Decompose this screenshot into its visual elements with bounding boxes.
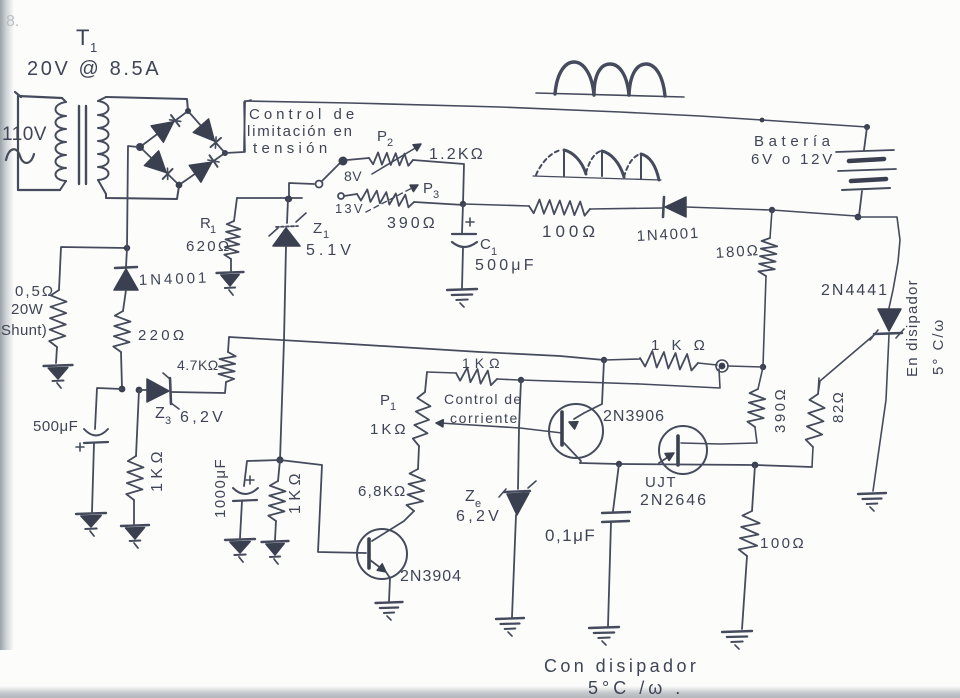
transformer primary winding [56,98,67,190]
svg-text:13V: 13V [335,201,365,216]
AC sine symbol [6,149,34,163]
ground SCR [858,493,886,511]
label 8V [344,168,362,184]
node battery minus [769,207,775,213]
capacitor 500uF [76,429,108,451]
svg-text:5.1V: 5.1V [306,242,355,259]
svg-text:1: 1 [323,229,330,241]
wire diode to battery node [686,207,770,210]
label Z3 [155,405,172,427]
label 1000uF [212,458,229,518]
svg-text:110V: 110V [2,124,47,145]
svg-text:82Ω: 82Ω [830,391,847,423]
svg-text:1: 1 [90,40,98,55]
label en disipador [904,279,921,377]
svg-text:390Ω: 390Ω [772,387,789,433]
waveform ripple [533,150,661,180]
bridge diode D3 [144,151,172,180]
resistor 39 ohm [747,367,765,427]
svg-text:8V: 8V [344,168,362,184]
label 500uF left [33,418,78,435]
wire 1K2 ground [275,521,276,540]
label 620 [186,238,231,255]
svg-text:500μF: 500μF [33,418,78,435]
label 1.2K [429,146,485,163]
wire 6.8K to P1 [418,446,419,469]
ground 1K left [121,525,149,548]
P2 wiper arrow [372,144,421,174]
svg-text:1: 1 [390,401,397,413]
label Z1 [313,220,330,241]
svg-text:2N4441: 2N4441 [821,282,889,299]
svg-text:6,8KΩ: 6,8KΩ [358,483,407,500]
wire secondary top to bridge [106,97,188,111]
potentiometer P3 [357,189,414,207]
transformer T1 label [76,25,98,55]
svg-text:100Ω: 100Ω [542,222,599,241]
label UJT [645,474,677,491]
svg-text:4.7KΩ: 4.7KΩ [177,357,219,373]
label Ze [465,488,482,510]
wire Ze to ground [512,515,516,617]
ground shunt [44,365,73,388]
wire 100b to ground [742,556,747,629]
svg-text:8.: 8. [6,13,19,30]
Q1 collector [372,511,414,541]
svg-text:UJT: UJT [645,474,677,491]
svg-text:1.2KΩ: 1.2KΩ [429,146,485,163]
label C1 [480,236,498,258]
wire 13V to P3 [344,194,357,196]
svg-text:2N3906: 2N3906 [603,408,665,425]
switch arm [322,157,348,182]
capacitor 0.1uF [602,512,630,522]
bridge diode D1 [151,115,181,142]
label 1K left [149,447,166,492]
ground 500uF [76,513,106,536]
transformer core [79,106,86,184]
label shunt [1,322,47,339]
wire to battery bottom [772,210,856,216]
wire P3 to C1 node [414,202,464,205]
wire 1K to ground [133,500,135,524]
wire C1 lead [462,204,463,233]
label 20W [11,301,44,318]
wire bias rail [229,337,604,360]
Q2 collector [564,443,581,463]
svg-text:390Ω: 390Ω [387,215,438,232]
wire secondary bottom to bridge [106,186,179,199]
svg-text:Shunt): Shunt) [1,322,47,339]
wire 8V to P2 [347,158,369,160]
svg-text:P: P [380,392,390,409]
node Ze top [518,377,524,383]
svg-text:1KΩ: 1KΩ [462,355,505,371]
node 01uF [616,461,622,467]
resistor 1K horizontal left [456,368,497,386]
svg-text:220Ω: 220Ω [138,327,187,344]
svg-text:Batería: Batería [754,133,835,150]
resistor 1K second [268,481,285,521]
svg-text:0,1μF: 0,1μF [545,526,596,545]
svg-text:1: 1 [210,224,217,236]
wire P1 to 1Kh [427,372,456,373]
label P2 [377,128,394,149]
svg-text:Control de: Control de [249,106,358,123]
svg-text:Z: Z [155,405,165,422]
svg-text:limitación en: limitación en [247,123,354,140]
svg-text:100Ω: 100Ω [760,535,806,552]
wire 180ohm to node B2rail [763,276,766,366]
svg-text:Control de: Control de [444,391,523,407]
wire bridge output riser [225,101,245,153]
wire 1Kh to node [497,379,519,380]
ground 100 ohm [722,631,752,649]
wire 220 to node [121,352,122,388]
label R1 [200,215,217,236]
resistor 100 ohm bottom [739,511,760,556]
node Z3 anode [136,387,143,394]
wire node A to 1000uF [244,460,280,486]
ground 0.1uF [589,627,619,645]
Q2 emitter [569,357,607,429]
wire P2 to C1 node [413,160,464,204]
zener Z1 [269,213,306,246]
label 13V [335,201,365,216]
wire lower rail [580,463,812,467]
note con disipador [544,656,699,698]
label P1 [380,392,397,413]
resistor 220 ohm [113,311,130,352]
wire node A to Q base [280,460,366,553]
wire shunt to ground [56,347,57,363]
label 2N3906 [603,408,665,425]
ground 1K second [262,541,289,564]
label 6.8K [358,483,407,500]
svg-text:Z: Z [465,488,475,505]
ground C1 [447,289,477,307]
wire bias to B2 node [521,369,720,388]
transformer secondary winding [98,97,109,194]
svg-text:En disipador: En disipador [904,279,921,377]
resistor 1K left [126,456,143,500]
svg-text:1N4001: 1N4001 [139,270,210,289]
svg-text:500μF: 500μF [475,257,537,274]
label 220 ohm [138,327,187,344]
waveform full-wave rectified [536,62,684,97]
wire node to R1 [234,198,302,221]
control box border [244,100,251,152]
label 1Kh right [651,337,709,354]
label 1Kh left [462,355,505,371]
wire diode to 220 [123,290,126,311]
svg-text:tensión: tensión [253,140,331,157]
wire 100b lead [752,465,755,511]
resistor R1 620 [224,221,240,259]
svg-text:1KΩ: 1KΩ [370,421,409,438]
label 2N4441 [821,282,889,299]
ground 2N3904 [376,602,403,620]
label 5.1V [306,242,355,259]
diode 1N4001 left [114,267,138,290]
svg-text:1 K Ω: 1 K Ω [651,337,709,354]
wire 100ohm to diode [590,208,662,209]
wire switch pole [286,183,314,202]
wire Ze lead [518,380,521,489]
label 20V @ 8.5A [27,58,161,80]
svg-text:1000μF: 1000μF [212,458,229,518]
svg-text:1KΩ: 1KΩ [287,469,304,514]
svg-text:Z: Z [313,220,322,237]
svg-text:5° C/ω: 5° C/ω [930,318,947,375]
wire node to 1K [136,390,139,456]
label 6.2V Z3 [180,409,226,426]
AC source 110V label [2,124,47,145]
capacitor C1 plus [466,218,474,226]
wire 4.7K top corner [228,337,229,352]
svg-text:P: P [423,180,433,197]
svg-text:T: T [76,25,90,50]
svg-text:20V @ 8.5A: 20V @ 8.5A [27,58,161,80]
label control de corriente [444,391,523,426]
capacitor 1000uF plus [246,476,254,484]
label P3 [423,180,440,201]
capacitor C1 [452,234,477,247]
resistor 100 ohm [529,200,590,216]
wire 01uF to ground [608,522,611,626]
svg-text:0,5Ω: 0,5Ω [15,283,55,300]
label Ze 6.2V [456,508,502,525]
diode 1N4001 right [663,197,686,217]
wire tap vertical [126,146,138,267]
svg-text:2N3904: 2N3904 [400,568,462,585]
node 100ohm bottom [752,462,759,469]
label 1N4001 left [139,270,210,289]
transistor Q2 2N3906 body [549,404,603,458]
resistor 82 ohm [806,378,825,467]
bridge diode D2 [193,119,221,148]
svg-text:Con disipador: Con disipador [544,656,699,676]
node left tap [124,245,130,251]
zener Ze [499,481,536,515]
node A [276,456,283,463]
svg-text:1N4001: 1N4001 [636,225,700,245]
resistor 4.7K [219,352,236,382]
UJT body [659,426,707,474]
switch pole contact [316,181,323,188]
label 100 ohm bottom [760,535,806,552]
node battery bottom [855,214,862,221]
svg-text:620Ω: 620Ω [186,238,231,255]
wire 01uF lead [613,464,619,511]
capacitor 1000uF [233,488,258,501]
node 1Kh right [698,360,728,372]
label 0.5 ohm [15,283,55,300]
node 39 top [728,364,766,370]
label 180 ohm [715,242,760,262]
svg-text:180Ω: 180Ω [715,242,760,262]
ground 1000uF [225,539,255,562]
label 1K second [287,469,304,514]
label bateria [751,133,835,168]
battery cells [836,127,896,216]
wire Z1 down to node A [280,246,286,460]
label 0.1uF [545,526,596,545]
wire R1 to ground [230,259,232,271]
svg-text:5°C /ω .: 5°C /ω . [588,678,684,698]
svg-text:1KΩ: 1KΩ [149,447,166,492]
label 2N2646 [640,492,708,509]
svg-text:3: 3 [433,189,440,201]
wire top rail to battery [245,101,867,127]
wire battery to SCR [858,217,900,308]
SCR 2N4441 [870,309,904,340]
wire C1 node to 100ohm [464,204,529,206]
label control de limitacion en tension [247,106,358,157]
node C1 top [460,201,466,207]
potentiometer P2 [369,152,413,165]
label P1 1K [370,421,409,438]
resistor 1K horizontal right [604,351,698,371]
label 5C per W [930,318,947,375]
svg-text:6V o 12V: 6V o 12V [751,151,835,168]
wire shunt top [59,247,127,290]
svg-text:2: 2 [387,137,394,149]
wire node to 180ohm [770,210,772,238]
SCR gate wire [818,335,874,394]
potentiometer P1 [413,392,431,446]
ground R1 [217,272,244,295]
resistor shunt 0.5 ohm [49,290,66,347]
svg-text:3: 3 [165,415,172,427]
node 220 bottom [119,386,126,393]
wire primary leads [15,92,62,190]
label 39 ohm [772,387,789,433]
Q1 emitter [370,560,390,601]
resistor 6.8K [407,469,426,511]
Q2 base wire [436,420,562,433]
label 2N3904 [400,568,462,585]
svg-text:P: P [377,128,387,145]
wire C1 to ground [462,248,463,288]
label 4.7K [177,357,219,373]
resistor 180 ohm [758,238,777,276]
svg-text:2N2646: 2N2646 [640,492,708,509]
wire node to Z1 [285,196,291,223]
wire P1 top [425,372,427,392]
switch contact 13V [338,193,344,199]
label 100 ohm [542,222,599,241]
svg-text:C: C [480,236,491,253]
zener Z3 [139,373,179,409]
P3 wiper arrow [366,185,418,212]
svg-text:20W: 20W [11,301,44,318]
label 1N4001 right [636,225,700,245]
label 500uF [475,257,537,274]
UJT emitter [659,453,674,463]
label 390 [387,215,438,232]
wire Z3 to 4.7K [172,382,226,393]
svg-text:6,2V: 6,2V [456,508,502,525]
bridge diode D4 [189,155,219,182]
wire node A to 1K2 [278,460,280,481]
transistor Q1 2N3904 body [357,529,407,579]
node battery top [864,124,870,130]
wire 1000uF ground [240,501,242,538]
ground Ze [496,618,524,636]
svg-text:6,2V: 6,2V [180,409,226,426]
wire node to 500uF [95,388,122,429]
wire 500uF to ground [92,443,94,512]
bridge rectifier frame [136,108,228,188]
label 82 ohm [830,391,847,423]
wire 39 to UJT B2 [681,427,757,444]
SCR cathode wire [873,335,889,491]
